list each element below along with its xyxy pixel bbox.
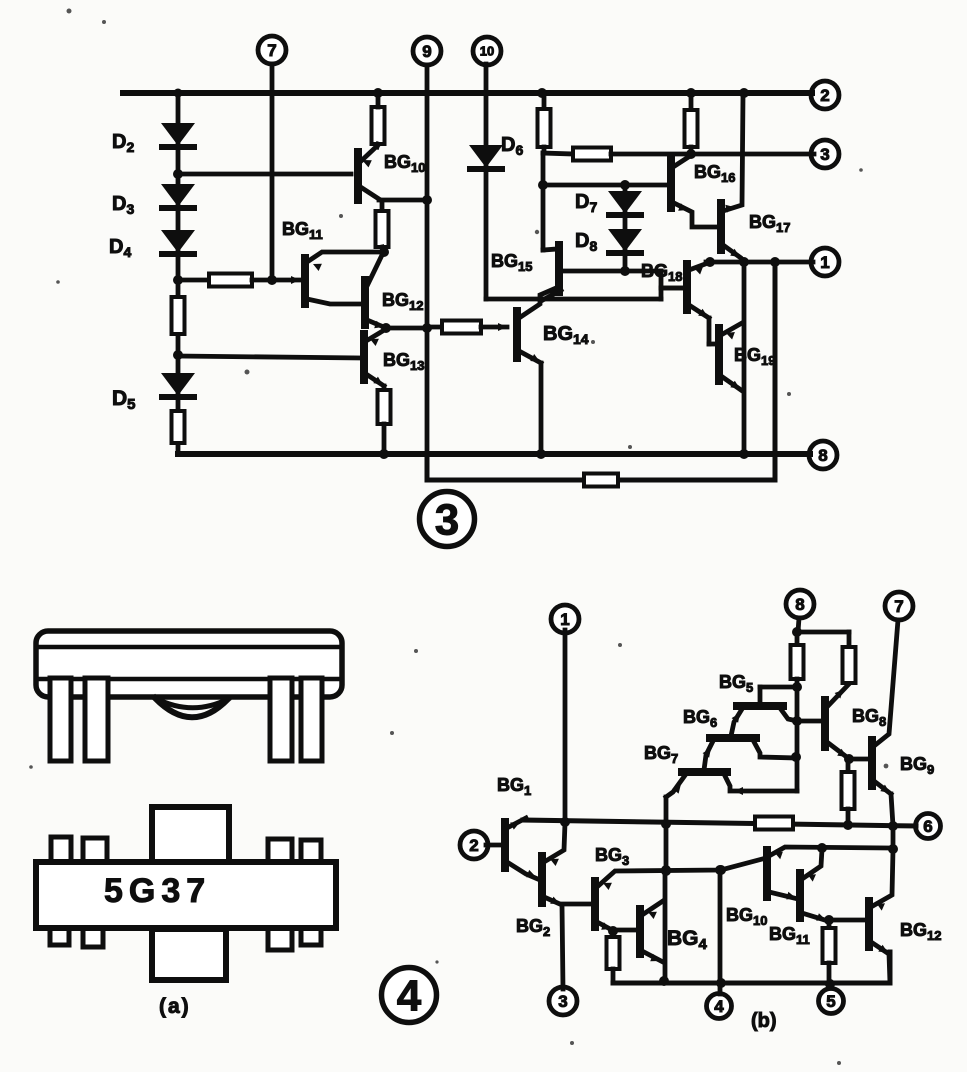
svg-text:5: 5 xyxy=(826,992,835,1011)
svg-text:1: 1 xyxy=(560,610,569,629)
svg-text:9: 9 xyxy=(422,42,431,61)
svg-text:1: 1 xyxy=(820,253,829,272)
svg-text:8: 8 xyxy=(795,595,804,614)
svg-text:3: 3 xyxy=(820,145,829,164)
svg-text:5G37: 5G37 xyxy=(104,872,211,910)
svg-text:6: 6 xyxy=(923,817,932,836)
svg-text:3: 3 xyxy=(558,992,567,1011)
svg-text:(b): (b) xyxy=(751,1010,777,1032)
svg-text:3: 3 xyxy=(435,495,459,544)
svg-text:(a): (a) xyxy=(159,995,191,1018)
svg-text:4: 4 xyxy=(714,997,724,1016)
svg-text:10: 10 xyxy=(480,44,494,59)
svg-text:4: 4 xyxy=(397,971,422,1020)
svg-text:7: 7 xyxy=(267,41,276,60)
svg-text:2: 2 xyxy=(469,836,478,855)
svg-text:7: 7 xyxy=(894,597,903,616)
svg-text:2: 2 xyxy=(820,86,829,105)
svg-text:8: 8 xyxy=(818,446,827,465)
